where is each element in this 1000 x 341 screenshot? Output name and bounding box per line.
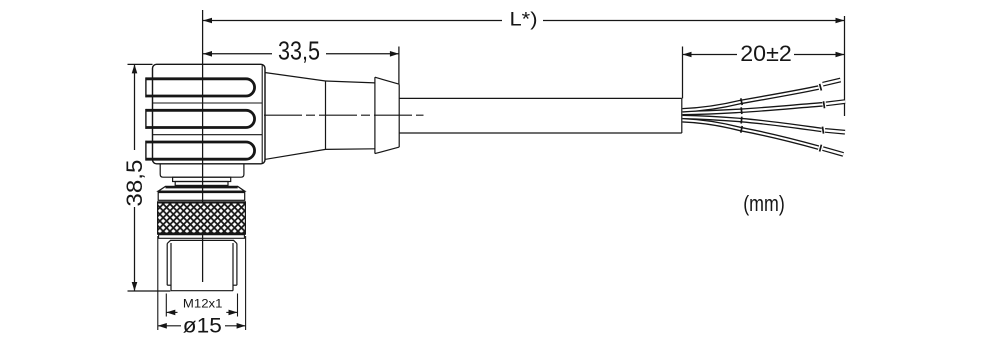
svg-text:L*): L*) [510, 8, 538, 30]
svg-text:M12x1: M12x1 [183, 296, 223, 310]
svg-text:ø15: ø15 [183, 314, 222, 338]
svg-text:33,5: 33,5 [278, 38, 320, 66]
svg-text:20±2: 20±2 [740, 41, 792, 66]
svg-text:(mm): (mm) [743, 191, 785, 216]
svg-text:38,5: 38,5 [122, 160, 147, 207]
